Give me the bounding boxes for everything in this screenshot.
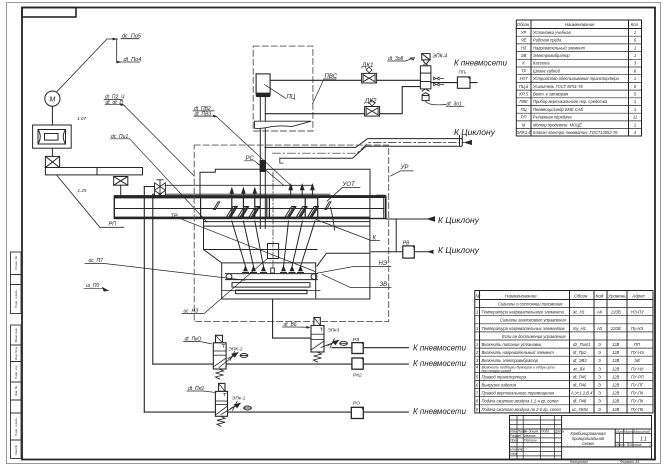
svg-text:Вент. к затворам: Вент. к затворам — [533, 92, 568, 97]
svg-text:Сигналы аналогового управления: Сигналы аналогового управления — [500, 318, 566, 323]
label dt_PkO — [185, 337, 202, 343]
svg-text:1: 1 — [634, 122, 636, 127]
svg-text:схема: схема — [582, 441, 594, 446]
left margin stamp cells — [11, 252, 22, 459]
svg-text:К Циклону: К Циклону — [438, 215, 480, 225]
label K (cassette) — [373, 235, 377, 241]
solenoid valve EPK-1 — [215, 383, 227, 416]
svg-text:ЭПК-2: ЭПК-2 — [229, 347, 243, 353]
svg-text:Инв. № д.: Инв. № д. — [14, 346, 18, 360]
svg-text:Привод вертикального перемещен: Привод вертикального перемещения — [482, 391, 555, 396]
pipe B (lower, via DK2) — [265, 87, 420, 114]
svg-text:220В: 220В — [610, 310, 621, 315]
svg-text:Э: Э — [598, 391, 601, 396]
label is_NZ with leader — [184, 309, 199, 315]
label dt_V6 — [284, 322, 297, 328]
regulator RZ — [352, 343, 363, 354]
svg-text:Кол.: Кол. — [631, 22, 639, 27]
EPK-2 spring — [216, 369, 224, 379]
svg-text:dt_П45: dt_П45 — [573, 374, 587, 379]
svg-text:Н.контр.: Н.контр. — [510, 447, 524, 451]
valve DK1 — [362, 67, 377, 83]
svg-text:ДК2: ДК2 — [364, 98, 377, 105]
cassette boxes K — [201, 198, 318, 216]
EPK-1 spring — [217, 416, 225, 426]
svg-text:К пневмосети: К пневмосети — [413, 406, 466, 416]
text K pnevmoseti 3 — [413, 406, 466, 416]
svg-text:Э: Э — [598, 374, 601, 379]
svg-text:1: 1 — [634, 99, 636, 104]
svg-text:Масштаб: Масштаб — [634, 430, 650, 434]
svg-text:Нагревательный элемент: Нагревательный элемент — [533, 45, 586, 50]
svg-text:НЗ: НЗ — [521, 45, 527, 50]
svg-text:ПВЕ: ПВЕ — [519, 99, 528, 104]
node labels dt_P2U / dt_dt_P — [105, 95, 125, 101]
conveyor band — [114, 196, 385, 219]
svg-text:Подп. и дата: Подп. и дата — [14, 418, 18, 436]
text K pnevmoseti 2 — [413, 358, 466, 368]
svg-text:Подп. и дата: Подп. и дата — [14, 290, 18, 308]
svg-text:1: 1 — [634, 76, 636, 81]
node label dc_По5 — [122, 34, 142, 40]
lever bar RP — [45, 168, 142, 175]
svg-text:ПУ-ПГ: ПУ-ПГ — [631, 383, 644, 388]
network pipe 2 — [153, 363, 409, 365]
svg-text:1: 1 — [476, 310, 478, 315]
svg-text:ПЦ.6: ПЦ.6 — [519, 84, 529, 89]
UOT drain hose — [331, 207, 335, 230]
svg-text:Справ. №: Справ. № — [14, 255, 18, 269]
svg-text:Клапан электро-пневматич. ГОСТ: Клапан электро-пневматич. ГОСТ12052-76 — [533, 130, 618, 135]
title block texts — [510, 430, 651, 465]
svg-text:Наименование: Наименование — [565, 22, 595, 27]
svg-text:ас_Н1: ас_Н1 — [573, 310, 585, 315]
svg-text:1: 1 — [634, 30, 636, 35]
svg-text:ПЦ: ПЦ — [287, 95, 296, 101]
loose nozzle tick right (UOT) — [325, 202, 331, 210]
svg-text:Обозн: Обозн — [574, 293, 588, 298]
svg-text:12В: 12В — [612, 383, 620, 388]
svg-text:dt_ЭВ3: dt_ЭВ3 — [573, 358, 587, 363]
dashed enclosure PVS around cylinder — [253, 46, 313, 131]
svg-text:Код: Код — [596, 293, 604, 298]
EPK-4 side ports — [434, 77, 444, 86]
svg-text:РК2: РК2 — [353, 373, 362, 379]
svg-text:Дата: Дата — [554, 430, 564, 434]
svg-text:Выгрузка изделия: Выгрузка изделия — [482, 383, 517, 388]
label dt_3o1 with curved leader — [426, 101, 446, 105]
supply riser V1 — [143, 187, 145, 413]
text K pnevmoseti 1 — [413, 343, 466, 353]
svg-text:ис_Пк91: ис_Пк91 — [572, 407, 588, 412]
svg-text:К Циклону: К Циклону — [438, 245, 480, 255]
svg-text:Шланг гибкий: Шланг гибкий — [533, 68, 561, 73]
text K ciklonu 3 — [438, 245, 480, 255]
svg-text:№: № — [476, 293, 481, 298]
svg-text:АК: АК — [596, 310, 603, 315]
svg-text:ПУ-РП: ПУ-РП — [631, 374, 644, 379]
manifold shut-off valve 2 — [155, 188, 166, 198]
EPK-1 throttle outlet — [221, 402, 240, 415]
svg-text:ос_П7: ос_П7 — [89, 258, 104, 264]
throttle RV — [371, 251, 431, 253]
svg-text:1: 1 — [634, 107, 636, 112]
svg-text:РО: РО — [353, 401, 360, 407]
title block — [510, 416, 652, 460]
svg-text:1:1: 1:1 — [640, 437, 647, 443]
UOT top cap — [376, 195, 387, 198]
text K pnevmoseti (top) — [454, 58, 507, 68]
vertical drop to RV — [395, 219, 397, 252]
svg-text:Адрес: Адрес — [631, 293, 646, 298]
svg-text:Листов: Листов — [628, 443, 642, 447]
svg-text:1: 1 — [476, 326, 478, 331]
svg-text:№ докум.: № докум. — [524, 430, 539, 434]
svg-text:К пневмосети: К пневмосети — [413, 343, 466, 353]
svg-text:Петров: Петров — [524, 438, 537, 442]
svg-text:Пров.: Пров. — [510, 438, 519, 442]
svg-text:АЗ: АЗ — [596, 326, 603, 331]
coupling X-box 2 — [114, 177, 128, 186]
svg-text:Температура нагревательного эл: Температура нагревательного элемента — [482, 310, 565, 315]
motor M — [45, 91, 60, 106]
svg-text:Иванов: Иванов — [524, 434, 536, 438]
svg-text:Если он достижения управления: Если он достижения управления — [502, 334, 566, 339]
svg-text:ПП: ПП — [634, 342, 640, 347]
svg-text:ЭВ: ЭВ — [634, 358, 640, 363]
EPK-1 muffler oval — [244, 406, 252, 410]
svg-text:12В: 12В — [612, 374, 620, 379]
svg-text:12В: 12В — [612, 342, 620, 347]
svg-text:ТР: ТР — [521, 68, 527, 73]
svg-text:М: М — [49, 97, 55, 104]
coupling X-box 1 — [45, 156, 59, 167]
svg-text:УОТ: УОТ — [519, 76, 528, 81]
left margin stamp vertical texts — [14, 255, 18, 454]
svg-text:НЭ: НЭ — [379, 261, 388, 267]
manifold shut-off valve 1 — [155, 180, 166, 190]
motor shaft wire — [51, 106, 53, 125]
EPK-2 throttle outlet — [219, 352, 238, 368]
drain pipe from machine — [273, 299, 311, 338]
ratio label 1.25 — [78, 188, 87, 193]
equipment list texts — [517, 22, 640, 135]
svg-text:Подача сжатого воздуха 1.1-я г: Подача сжатого воздуха 1.1-я гр. сопел — [482, 399, 560, 404]
label dt_3o8 — [388, 56, 404, 62]
regulator RO — [351, 407, 363, 418]
svg-text:1.25: 1.25 — [78, 188, 87, 193]
label NE with leader — [379, 261, 388, 267]
svg-text:Наименование: Наименование — [505, 293, 537, 298]
svg-text:12В: 12В — [612, 407, 620, 412]
piston rod (double line) — [260, 97, 265, 229]
svg-text:ЭПК1.4: ЭПК1.4 — [517, 130, 532, 135]
svg-text:Подп.: Подп. — [541, 430, 550, 434]
svg-text:ас_В4: ас_В4 — [573, 366, 585, 371]
svg-text:1: 1 — [476, 342, 478, 347]
svg-text:Прибор вертикального пер. сред: Прибор вертикального пер. средства — [533, 99, 608, 104]
svg-text:Подача сжатого воздуха по 2-й: Подача сжатого воздуха по 2-й гр. сопел — [482, 407, 562, 412]
regulator RK2 — [352, 358, 363, 369]
svg-text:Инв. №: Инв. № — [14, 385, 18, 396]
svg-text:dz_Пит1: dz_Пит1 — [573, 342, 591, 347]
svg-text:ЧЕ: ЧЕ — [521, 38, 527, 43]
label RP — [57, 176, 124, 228]
UOT end cap — [384, 196, 386, 218]
svg-text:1: 1 — [634, 45, 636, 50]
svg-text:К пневмосети: К пневмосети — [454, 58, 507, 68]
svg-text:Включить нагревательный элемен: Включить нагревательный элемент — [482, 350, 555, 355]
svg-text:Подп. и д.: Подп. и д. — [14, 365, 18, 379]
svg-text:1: 1 — [634, 53, 636, 58]
svg-text:ПУ-ПК: ПУ-ПК — [631, 399, 644, 404]
svg-text:А.Ус1.2.В.4: А.Ус1.2.В.4 — [570, 391, 593, 396]
rod coupling — [260, 160, 266, 172]
label PVS with leader — [325, 74, 338, 80]
svg-text:12В: 12В — [612, 391, 620, 396]
svg-text:ПУ-ПК: ПУ-ПК — [631, 407, 644, 412]
EPK-3 muffler oval — [340, 341, 348, 345]
svg-text:Включить питание установки: Включить питание установки — [482, 342, 542, 347]
shaft wire to coupling — [51, 148, 53, 156]
svg-text:Взам. инв.: Взам. инв. — [14, 328, 18, 343]
network pipe 1 — [332, 347, 408, 349]
svg-text:dt_П46: dt_П46 — [573, 383, 587, 388]
muffler PG on network line — [431, 82, 477, 84]
solenoid valve EPK-3 — [311, 318, 324, 353]
label PC with leader — [265, 85, 287, 99]
svg-text:К Циклону: К Циклону — [454, 127, 496, 137]
label sh_P0 — [86, 283, 100, 289]
node label dt_По4 — [124, 57, 142, 63]
svg-text:dt_П48: dt_П48 — [573, 399, 587, 404]
svg-text:НЭ-ПУ: НЭ-ПУ — [631, 310, 644, 315]
svg-text:Уровень: Уровень — [608, 293, 626, 298]
air manifold line 2 — [166, 193, 330, 195]
vibrating table belt — [226, 274, 318, 280]
label dc_Pn1 with long leader — [111, 134, 128, 140]
svg-text:Кассета: Кассета — [533, 61, 550, 66]
svg-text:Инв.№: Инв.№ — [14, 444, 18, 454]
svg-text:Усилитель ГОСТ 8У51-76: Усилитель ГОСТ 8У51-76 — [533, 84, 583, 89]
valve stub wires — [144, 187, 154, 195]
variator (belt drive) — [33, 125, 72, 148]
center device (spray head) — [268, 244, 279, 259]
svg-text:12В: 12В — [612, 399, 620, 404]
svg-text:УР: УР — [521, 30, 527, 35]
svg-text:ПГь: ПГь — [459, 70, 468, 75]
svg-text:Рычажная передача: Рычажная передача — [533, 115, 572, 120]
pneumatic cylinder PC — [256, 74, 270, 97]
svg-text:Рабочая среда: Рабочая среда — [533, 38, 562, 43]
svg-text:Э: Э — [598, 350, 601, 355]
svg-text:Копировал: Копировал — [570, 460, 588, 464]
svg-text:Включить электровибратор: Включить электровибратор — [482, 358, 539, 363]
svg-text:Изм: Изм — [510, 430, 517, 434]
svg-text:М: М — [522, 122, 526, 127]
svg-text:РП: РП — [521, 115, 527, 120]
svg-text:ЭВ: ЭВ — [521, 53, 527, 58]
svg-text:1.07: 1.07 — [77, 116, 86, 121]
riser pipes with arrows (right group) — [289, 185, 314, 196]
svg-text:ДК1: ДК1 — [361, 62, 373, 69]
svg-text:Э: Э — [598, 399, 601, 404]
svg-text:11: 11 — [633, 115, 637, 120]
svg-text:Э: Э — [598, 342, 601, 347]
svg-text:РЗ: РЗ — [353, 337, 359, 343]
svg-text:12В: 12В — [612, 366, 620, 371]
label RS with leader — [246, 156, 255, 162]
svg-text:Э: Э — [598, 407, 601, 412]
svg-text:при старт-цикле: при старт-цикле — [482, 369, 512, 373]
supply riser V2 — [152, 194, 154, 364]
svg-text:Разраб.: Разраб. — [510, 434, 522, 438]
heater slab NE — [232, 283, 310, 288]
EPK-2 muffler oval — [240, 354, 248, 358]
svg-text:220В: 220В — [610, 326, 621, 331]
label os_P7 with long leader — [89, 258, 104, 264]
svg-text:ЗВ: ЗВ — [380, 282, 388, 288]
svg-text:ЭПк-1: ЭПк-1 — [232, 396, 246, 402]
labels dt_PV2 / dt_PV3 — [194, 106, 211, 112]
svg-text:Э: Э — [598, 383, 601, 388]
label dt_Pk9 — [188, 386, 204, 392]
vibrator slab EV — [236, 290, 308, 294]
svg-text:КП.5: КП.5 — [519, 92, 529, 97]
label TR — [171, 214, 178, 220]
svg-text:Формат А1: Формат А1 — [620, 460, 640, 464]
electro-pneumatic valve EPK-4 — [420, 54, 431, 101]
hose nozzle tips — [243, 267, 304, 273]
duct 2 to cyclone (UOT outlet) — [386, 217, 434, 221]
machine lower housing — [204, 219, 370, 300]
svg-text:12В: 12В — [612, 358, 620, 363]
svg-text:ту_Н1: ту_Н1 — [573, 326, 586, 331]
leader to label dc_По5 — [57, 39, 118, 92]
air manifold line 1 — [166, 184, 313, 186]
svg-text:1: 1 — [649, 443, 651, 447]
scraper blade — [255, 121, 312, 128]
svg-text:Привод транспортера: Привод транспортера — [482, 374, 527, 379]
svg-text:dt_Пр2: dt_Пр2 — [573, 350, 587, 355]
svg-text:Установка учебная: Установка учебная — [533, 30, 572, 35]
network pipe 3 — [144, 411, 408, 413]
svg-text:Лист: Лист — [615, 443, 625, 447]
dashed enclosure UR (machine) — [194, 145, 389, 322]
svg-text:Температура нагревательных эле: Температура нагревательных элементов — [482, 326, 566, 331]
svg-text:Мотор продувочн. МОЦЕ: Мотор продувочн. МОЦЕ — [533, 122, 582, 127]
svg-text:Сигналы о состоянии положения: Сигналы о состоянии положения — [498, 302, 563, 307]
svg-text:Э: Э — [598, 358, 601, 363]
pipe A (upper, to EPK-4) — [270, 79, 420, 81]
flexible hoses TR — [232, 221, 315, 267]
svg-text:ЭПк3: ЭПк3 — [328, 328, 340, 334]
housing right edge through band — [369, 196, 371, 219]
svg-text:Лит.: Лит. — [615, 430, 624, 434]
EPK-3 throttle outlet — [321, 339, 339, 348]
svg-text:УР: УР — [400, 165, 409, 171]
dust duct 1 to cyclone — [265, 136, 462, 163]
svg-text:Э: Э — [598, 366, 601, 371]
solenoid valve EPK-2 — [213, 335, 226, 369]
riser stubs with arrows (left group) — [230, 188, 256, 196]
svg-text:ЭПК-4: ЭПК-4 — [433, 53, 448, 59]
equipment list table — [516, 20, 641, 136]
signal list table — [475, 291, 653, 413]
label UOT — [342, 182, 357, 188]
manifold rail (dark) — [114, 196, 317, 199]
svg-text:12В: 12В — [612, 350, 620, 355]
svg-text:Электровибратор: Электровибратор — [533, 53, 570, 58]
svg-text:РВ: РВ — [403, 240, 410, 246]
svg-text:Масса: Масса — [624, 430, 634, 434]
loose nozzle tick left — [214, 202, 220, 210]
nozzle cassette hatch marks — [227, 207, 319, 218]
wire to label dt_По4 — [117, 39, 122, 62]
top-left stamp cell — [22, 8, 76, 18]
svg-text:Обозн.: Обозн. — [517, 22, 531, 27]
svg-text:ПУ-ПК: ПУ-ПК — [631, 391, 644, 396]
text K ciklonu 1 — [454, 127, 496, 137]
svg-text:ПЦ: ПЦ — [521, 107, 527, 112]
svg-text:ПУ-НУ: ПУ-НУ — [631, 366, 644, 371]
svg-text:ПУ-НЭ: ПУ-НЭ — [631, 350, 644, 355]
svg-text:Утв.: Утв. — [510, 452, 518, 456]
svg-text:Пу-НЭ: Пу-НЭ — [631, 326, 643, 331]
EPK-3 spring — [314, 352, 322, 362]
signal list texts — [475, 293, 646, 411]
label UR with leader — [400, 165, 409, 171]
svg-text:К пневмосети: К пневмосети — [413, 358, 466, 368]
svg-text:РП: РП — [109, 222, 117, 228]
svg-text:Устройство обеспыливания транс: Устройство обеспыливания транспортера — [533, 76, 620, 81]
label ZV with leader — [380, 282, 388, 288]
machine upper outline — [200, 169, 370, 196]
valve DK2 — [365, 100, 380, 116]
svg-text:Пневмоцилиндр SМЕ САБ: Пневмоцилиндр SМЕ САБ — [533, 107, 583, 112]
